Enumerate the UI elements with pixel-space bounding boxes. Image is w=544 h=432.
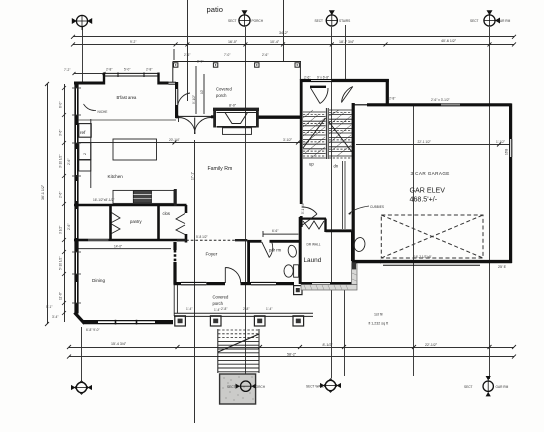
svg-text:8'-0": 8'-0" — [229, 104, 237, 108]
front wall to porch column — [276, 282, 294, 285]
dining front windows mullions — [115, 320, 117, 325]
garage east wall — [509, 104, 512, 140]
top segmented dimension line — [73, 44, 514, 46]
hearth — [223, 128, 252, 135]
section marker bottom D — [464, 376, 509, 396]
covered porch top edge — [173, 61, 301, 63]
stairs center divider — [325, 108, 327, 159]
left exterior wall — [74, 82, 76, 314]
svg-text:1'-4": 1'-4" — [266, 307, 272, 311]
svg-text:2: 2 — [83, 153, 87, 155]
svg-text:clos: clos — [163, 211, 170, 216]
svg-text:8'-0": 8'-0" — [197, 60, 203, 64]
niche leader — [84, 104, 97, 111]
section marker bottom A — [71, 381, 92, 394]
family top wall fireplace east to stairs — [258, 115, 302, 118]
svg-text:6'-0": 6'-0" — [59, 102, 63, 108]
porch top left dim extensions — [173, 49, 175, 60]
front window left of door — [181, 281, 206, 283]
foyer east wall — [247, 241, 250, 284]
extension line x=344 bottom — [344, 288, 346, 376]
front window right of door — [251, 281, 276, 283]
bay window left jamb — [103, 73, 105, 85]
house front wall segment west — [174, 282, 182, 285]
svg-text:SECT: SECT — [470, 19, 479, 23]
section marker top C — [315, 10, 351, 26]
garage east window — [509, 139, 511, 157]
coat closet top wall — [302, 218, 326, 220]
svg-text:Covered: Covered — [216, 87, 232, 92]
svg-text:16'-0": 16'-0" — [228, 40, 238, 44]
svg-text:14'-0": 14'-0" — [114, 244, 122, 248]
pantry clos divider — [157, 205, 160, 241]
pdr north wall — [247, 240, 261, 243]
svg-text:2'-6": 2'-6" — [59, 192, 63, 198]
svg-text:9'-1/2": 9'-1/2" — [192, 95, 196, 104]
svg-text:3 1/2": 3 1/2" — [59, 226, 63, 234]
porch column 4 — [295, 63, 299, 67]
svg-text:7'-0": 7'-0" — [224, 53, 230, 57]
svg-text:NICHE: NICHE — [98, 110, 108, 114]
svg-text:2'-8": 2'-8" — [243, 307, 249, 311]
svg-text:40'-6 1/2": 40'-6 1/2" — [441, 39, 457, 43]
svg-text:GAR ELEV: GAR ELEV — [410, 187, 446, 195]
svg-text:58'-2": 58'-2" — [287, 352, 297, 356]
garage attic X dashed rect — [381, 215, 483, 258]
entry steps side rails — [217, 329, 219, 373]
svg-text:CUBBIES: CUBBIES — [370, 205, 384, 209]
stairs right flight treads — [329, 110, 352, 156]
stairs right flight break line — [329, 122, 352, 152]
top wall over stairs/mud — [300, 79, 311, 82]
svg-text:18'-7 3/4": 18'-7 3/4" — [339, 40, 355, 44]
connector wall house to garage — [353, 260, 381, 263]
extension line x=345 top — [345, 25, 347, 80]
firebox — [217, 113, 257, 124]
svg-text:5'-8 1/2": 5'-8 1/2" — [196, 235, 208, 239]
svg-text:Kitchen: Kitchen — [108, 174, 124, 179]
svg-text:Foyer: Foyer — [206, 252, 218, 257]
dining chamfer corner — [75, 313, 85, 324]
kitchen island — [113, 139, 157, 160]
svg-text:16'-2 1/2"x8': 16'-2 1/2"x8' — [414, 255, 432, 259]
bay window glazing — [103, 72, 159, 74]
porch upper column SE — [294, 286, 302, 295]
svg-text:ref: ref — [80, 130, 86, 135]
section marker top B — [228, 10, 264, 26]
svg-text:6'-6": 6'-6" — [272, 229, 278, 233]
garage interior dimension line — [356, 144, 510, 146]
left secondary dimension line — [64, 84, 66, 322]
pantry bifold doors — [112, 213, 121, 234]
section line A vertical left — [82, 27, 84, 84]
top dim ticks — [71, 35, 516, 47]
svg-text:10': 10' — [200, 89, 204, 94]
entry steps break diagonal — [218, 334, 259, 352]
range — [133, 191, 151, 204]
cubbies lines — [341, 161, 343, 229]
section marker bottom C — [306, 379, 341, 392]
svg-text:DR WALL: DR WALL — [307, 243, 321, 247]
section marker top D — [470, 10, 511, 26]
svg-text:2'-8": 2'-8" — [146, 68, 152, 72]
bay window right jamb — [157, 73, 159, 85]
svg-text:STAIRS: STAIRS — [339, 19, 350, 23]
svg-text:Covered: Covered — [213, 295, 229, 300]
grid line at x=283 — [283, 0, 285, 62]
svg-text:Laund: Laund — [304, 257, 322, 264]
svg-text:porch: porch — [213, 301, 224, 306]
porch right edge — [299, 62, 301, 81]
svg-text:36'-1 1/2": 36'-1 1/2" — [41, 184, 45, 200]
b'fast east wall upper — [175, 82, 178, 89]
stairs left flight break line — [303, 118, 326, 148]
dining front wall — [83, 320, 98, 323]
svg-text:GAR RM: GAR RM — [498, 19, 511, 23]
laundry east wall stub — [351, 231, 353, 261]
porch column 1 — [174, 63, 178, 67]
family room interior dimension line — [78, 142, 300, 144]
svg-text:8'-1/2": 8'-1/2" — [323, 343, 334, 347]
foyer west wall / dining east wall — [173, 242, 176, 250]
walkway laundry to garage — [301, 264, 357, 291]
svg-text:2'-8": 2'-8" — [389, 97, 395, 101]
bottom dim ticks — [67, 345, 516, 359]
left wall segment dims rotated — [59, 102, 72, 300]
svg-text:1st flr: 1st flr — [374, 313, 384, 317]
svg-text:5'-0": 5'-0" — [124, 68, 130, 72]
laundry north wall — [326, 229, 352, 232]
fireplace left wall — [213, 108, 216, 128]
svg-text:7'-2": 7'-2" — [64, 68, 70, 72]
stairs left flight hatch — [303, 110, 325, 158]
svg-text:up: up — [309, 162, 314, 167]
svg-text:pantry: pantry — [130, 219, 143, 224]
coat closet east wall — [324, 219, 326, 232]
stair hall door bottom — [302, 207, 317, 226]
section marker top A — [72, 15, 92, 30]
clos east wall — [185, 205, 188, 213]
svg-text:SECT: SECT — [227, 385, 236, 389]
kitchen east wall stub — [174, 189, 177, 206]
svg-text:2'-6": 2'-6" — [304, 76, 310, 80]
landing closet door leaf — [311, 88, 329, 104]
ref box — [79, 124, 91, 138]
kitchen south wall — [74, 204, 187, 207]
svg-text:GAR RM: GAR RM — [496, 385, 509, 389]
svg-text:468.5'+/-: 468.5'+/- — [410, 196, 438, 204]
front door leaf and arc — [225, 268, 240, 284]
mud bump east wall — [386, 79, 389, 105]
svg-text:2'-8": 2'-8" — [221, 307, 227, 311]
svg-text:PORCH: PORCH — [254, 385, 266, 389]
porch left edge — [172, 62, 174, 83]
garage landing door — [342, 87, 353, 103]
svg-text:B'fast area: B'fast area — [117, 95, 138, 100]
svg-text:2'-6": 2'-6" — [184, 53, 190, 57]
porch base column 4 — [293, 316, 304, 326]
dining left windows sills — [72, 88, 81, 303]
svg-text:3'-6": 3'-6" — [59, 130, 63, 136]
walkway hatch — [304, 267, 357, 290]
svg-text:5'-10 1/2": 5'-10 1/2" — [59, 257, 63, 270]
stairs right flight hatch — [329, 110, 351, 156]
kitchen upper counter line — [90, 119, 92, 188]
svg-text:SECT: SECT — [464, 385, 473, 389]
svg-text:22'-1 1/2": 22'-1 1/2" — [418, 140, 431, 144]
svg-text:9' x 6'-8": 9' x 6'-8" — [317, 76, 329, 80]
porch base column 2 — [210, 316, 221, 326]
cubbies leader — [349, 206, 370, 214]
svg-text:1'-4": 1'-4" — [186, 307, 192, 311]
exterior wall: top right of bay — [158, 82, 169, 85]
porch column 3 — [255, 63, 259, 67]
left wall solid chunks — [75, 82, 79, 88]
svg-text:1'-4": 1'-4" — [214, 308, 220, 312]
svg-text:25' E: 25' E — [498, 265, 507, 269]
entry walk — [220, 374, 256, 404]
svg-text:3'-4": 3'-4" — [52, 315, 58, 319]
front wall between door and window — [241, 282, 252, 285]
garage south wall — [380, 260, 512, 263]
svg-text:2'-6" x 3'-1/2": 2'-6" x 3'-1/2" — [431, 98, 450, 102]
svg-text:SECT: SECT — [228, 19, 237, 23]
svg-text:fl 1,232 sq ft: fl 1,232 sq ft — [369, 322, 389, 326]
garage door line — [383, 264, 480, 266]
porch column 2 — [213, 63, 217, 67]
dining dimension line — [76, 248, 171, 250]
svg-text:2'-8": 2'-8" — [106, 68, 112, 72]
section line B vertical through porch/foyer — [245, 27, 247, 379]
svg-text:1'-1/2": 1'-1/2" — [496, 140, 505, 144]
svg-text:16'-1/2"x8'-1/2": 16'-1/2"x8'-1/2" — [93, 198, 114, 202]
foyer dashed opening — [177, 239, 247, 241]
kitchen b'fast soffit line — [78, 119, 176, 121]
bottom dimension line 2 — [69, 356, 514, 358]
svg-text:SECT: SECT — [315, 19, 324, 23]
garage post — [352, 262, 356, 269]
coat closet hanger zigzag — [303, 221, 324, 229]
extension line x=414 through garage — [413, 106, 415, 376]
family top wall west stub — [176, 115, 179, 118]
garage top window — [441, 103, 460, 105]
svg-text:10'-4": 10'-4" — [270, 40, 280, 44]
exterior wall: b'fast top — [74, 82, 105, 85]
kitchen lower counter — [113, 190, 174, 203]
entry steps dashed treads — [218, 330, 259, 338]
stair hall west wall — [300, 79, 303, 204]
porch base column 1 — [175, 316, 186, 326]
svg-text:34'-2": 34'-2" — [279, 31, 289, 35]
svg-text:22'-1/2": 22'-1/2" — [425, 343, 438, 347]
mud south wall — [353, 104, 367, 106]
svg-text:pdr rm: pdr rm — [269, 248, 282, 253]
svg-text:5'-1": 5'-1" — [46, 305, 52, 309]
svg-text:5'-1 3/4": 5'-1 3/4" — [301, 202, 305, 214]
b'fast east wall lower — [175, 105, 178, 118]
svg-text:3'-1/2": 3'-1/2" — [283, 138, 292, 142]
porch base column 3 — [254, 316, 265, 326]
entry steps treads — [218, 341, 259, 371]
svg-text:Dining: Dining — [92, 278, 105, 283]
pdr sink — [287, 244, 297, 257]
svg-text:3 CAR GARAGE: 3 CAR GARAGE — [411, 171, 450, 176]
pdr toilet — [294, 265, 299, 277]
fireplace right wall — [256, 108, 259, 128]
top-left 7'-2" dim line — [74, 73, 104, 75]
svg-text:Family Rm: Family Rm — [208, 166, 233, 172]
clos bifold doors — [176, 214, 185, 235]
b'fast east wall window — [175, 89, 177, 105]
landing closet stub — [310, 86, 326, 88]
corner window top — [169, 81, 177, 83]
kitchen-dining wall — [74, 239, 88, 242]
front porch slab edge — [174, 312, 313, 314]
french door sill — [178, 115, 212, 117]
bottom dimension line 1 — [69, 347, 514, 349]
svg-text:11'-6": 11'-6" — [59, 292, 63, 300]
front wall between window and door — [206, 282, 225, 285]
svg-text:2'-6": 2'-6" — [67, 224, 71, 230]
left vertical dimension line — [47, 84, 49, 324]
svg-text:2'-6": 2'-6" — [67, 159, 71, 165]
grid line at x=194.5 — [194, 140, 196, 423]
fireplace top wall — [213, 108, 259, 111]
front porch left edge — [173, 285, 175, 316]
foyer opening end stubs — [177, 239, 186, 241]
svg-text:9'-2": 9'-2" — [130, 40, 136, 44]
grid line at x=187 — [187, 0, 189, 101]
laundry tub — [353, 237, 366, 253]
svg-text:17'-1": 17'-1" — [191, 172, 195, 180]
svg-text:6'-8" 9'-0": 6'-8" 9'-0" — [86, 328, 100, 332]
svg-text:15'-4 3/4": 15'-4 3/4" — [111, 342, 127, 346]
b'fast vertical dim lines — [195, 66, 197, 114]
french doors to family room — [179, 118, 212, 135]
pantry west wall — [109, 205, 112, 241]
laundry front wall — [301, 282, 312, 285]
powder room dimension line — [263, 233, 298, 235]
svg-text:dn: dn — [334, 164, 339, 169]
pdr east / laundry west wall — [299, 217, 302, 284]
top overall dimension line — [73, 36, 514, 38]
svg-text:porch: porch — [216, 93, 227, 98]
section line D vertical right — [489, 27, 491, 379]
oven box — [79, 143, 91, 160]
garage top wall — [386, 103, 441, 106]
stairs left flight treads — [303, 112, 326, 158]
svg-text:SECT WALL: SECT WALL — [306, 385, 324, 389]
svg-text:20'-1/4": 20'-1/4" — [169, 138, 180, 142]
pdr door leaf and arc — [262, 242, 273, 258]
family top wall fireplace west — [211, 115, 216, 118]
svg-text:PORCH: PORCH — [252, 19, 264, 23]
section line C vertical through stairs/laundry — [331, 27, 333, 379]
section marker bottom B — [227, 381, 266, 391]
svg-text:3'-10 1/2": 3'-10 1/2" — [59, 155, 63, 168]
b'fast door arc — [178, 93, 190, 105]
svg-text:patio: patio — [207, 5, 223, 14]
svg-text:16'B: 16'B — [505, 149, 509, 155]
house east wall — [352, 103, 355, 263]
svg-text:2'-6": 2'-6" — [262, 53, 268, 57]
